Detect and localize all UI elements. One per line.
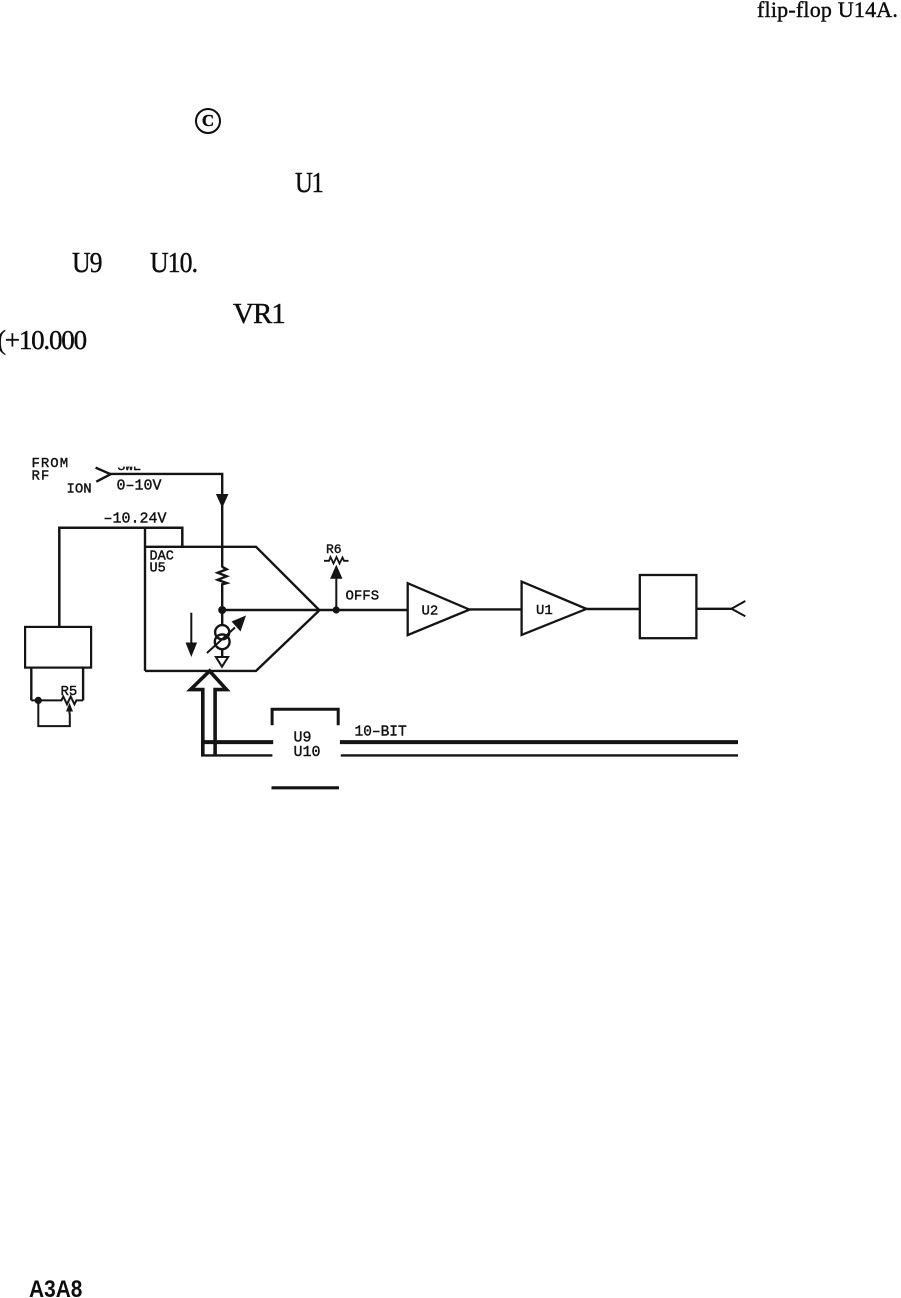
svg-text:–10.24V: –10.24V: [104, 511, 167, 528]
page text fragment "flip-flop U14A.": [757, 0, 898, 23]
bus 10-BIT upper line: [202, 740, 738, 744]
net label 0-10V: [117, 478, 162, 495]
connector chevron (output): [732, 601, 746, 616]
arrow to R6 (up) with shaft: [335, 578, 337, 610]
partial net label SWE (clipped bottoms): [114, 453, 146, 474]
wire U1 to output block: [587, 608, 640, 610]
wire output block to connector: [696, 608, 731, 610]
block arrow (data into DAC): [191, 671, 227, 756]
page text fragment "(+10.000": [0, 325, 86, 356]
node OFFS: [333, 606, 340, 613]
label U2: [422, 604, 439, 620]
label DAC U5: [150, 550, 174, 577]
R5 wiper arrow: [69, 711, 71, 714]
op-amp U2: [408, 583, 470, 635]
wire current source to internal ground: [221, 649, 223, 657]
connector label FROM RF: [32, 456, 70, 485]
reference block (left box): [25, 627, 91, 668]
node summing junction: [218, 606, 226, 614]
resistor R6 body: [324, 557, 349, 564]
page text fragment "VR1": [233, 298, 285, 331]
wire node to current source: [221, 610, 223, 626]
signal flow arrow (down) on input wire: [216, 494, 229, 508]
svg-text:ION: ION: [67, 482, 92, 498]
DAC U5 outline: [145, 528, 319, 671]
junction node on R5: [35, 697, 42, 704]
wire box to potentiometer (right leg): [82, 668, 84, 701]
wire box to potentiometer (left leg): [30, 668, 32, 701]
svg-text:U5: U5: [150, 562, 166, 577]
svg-text:RF: RF: [32, 469, 51, 485]
op-amp U1: [522, 582, 587, 635]
svg-text:U1: U1: [536, 603, 553, 619]
svg-text:U2: U2: [422, 604, 439, 620]
potentiometer R5 body: [31, 697, 83, 705]
current source (two circles): [215, 625, 229, 639]
net label -10.24V: [104, 511, 167, 528]
latch U9/U10 top bracket: [272, 709, 338, 725]
wire wiper to junction: [38, 700, 70, 726]
svg-text:U10: U10: [294, 744, 321, 761]
page text fragment copyright symbol: [195, 108, 221, 134]
svg-text:R6: R6: [326, 542, 342, 557]
page text fragment "A3A8": [29, 1276, 82, 1298]
bus lower line: [201, 754, 738, 756]
svg-text:10–BIT: 10–BIT: [355, 725, 408, 741]
bus label 10-BIT: [355, 725, 408, 741]
label U1: [536, 603, 553, 619]
wire summing node to OFFS: [222, 609, 408, 611]
page text fragment "U9 U10.": [72, 248, 102, 280]
wire -10.24V rail: [59, 528, 182, 627]
resistor R6 label: [326, 542, 342, 557]
wire input from chevron to DAC: [110, 474, 222, 568]
current flow arrow (down, inside DAC): [190, 613, 192, 644]
svg-text:OFFS: OFFS: [346, 589, 380, 605]
label ION: [67, 482, 92, 498]
ground (open triangle): [216, 657, 228, 667]
net label OFFS: [346, 589, 380, 605]
svg-text:0–10V: 0–10V: [117, 478, 162, 495]
resistor (DAC internal ladder): [218, 567, 227, 606]
wire U2 to U1: [470, 608, 522, 610]
page text fragment "U1": [295, 168, 322, 200]
adjustment arrow through current source: [207, 628, 235, 654]
latch bottom underline: [272, 786, 340, 789]
connector chevron (input): [96, 468, 111, 482]
output block: [640, 575, 697, 638]
label U9 U10: [294, 730, 321, 762]
potentiometer R5 label: [61, 684, 78, 700]
